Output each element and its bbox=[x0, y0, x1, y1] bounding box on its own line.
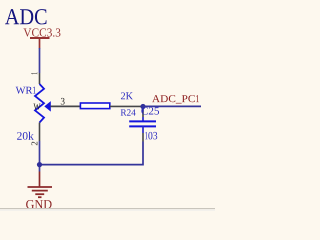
net label ADC_PC1 bbox=[152, 95, 199, 103]
capacitor C25 top pin wire stub bbox=[142, 107, 144, 113]
potentiometer WR1 wiper arrow bbox=[44, 101, 51, 112]
ground bar 4 bbox=[38, 196, 42, 198]
power symbol VCC3.3 stem bbox=[39, 38, 41, 49]
window bottom border line bbox=[0, 208, 215, 209]
window bottom band bbox=[0, 209, 215, 211]
ground bar 2 bbox=[32, 190, 48, 192]
potentiometer WR1 body zigzag bbox=[35, 84, 44, 123]
designator WR1 bbox=[16, 87, 36, 94]
power net label VCC3.3 bbox=[23, 28, 60, 36]
capacitor C25 bottom pin bbox=[142, 133, 144, 142]
ground bar 3 bbox=[35, 193, 44, 195]
ground stem bbox=[39, 172, 41, 187]
pin number 2 bbox=[31, 142, 37, 146]
power symbol VCC3.3 bar bbox=[30, 37, 50, 39]
pin number 3 bbox=[61, 98, 65, 105]
capacitor C25 bottom plate stem bbox=[142, 126, 144, 133]
pin name W bbox=[33, 104, 40, 110]
capacitor C25 top plate stem bbox=[142, 117, 144, 121]
potentiometer WR1 wiper pin 3 bbox=[51, 105, 81, 107]
wire net ADC_PC1 bbox=[143, 105, 201, 107]
value 103 bbox=[145, 132, 157, 140]
ground bar 1 bbox=[28, 186, 53, 188]
title ADC bbox=[5, 9, 46, 24]
value 2K bbox=[121, 92, 133, 99]
value 20k bbox=[17, 132, 34, 140]
resistor R24 body bbox=[80, 103, 109, 109]
pin number 1 bbox=[31, 72, 37, 74]
designator R24 bbox=[121, 109, 136, 115]
junction node ADC_PC1 bbox=[140, 104, 145, 109]
resistor R24 right pin bbox=[110, 105, 143, 107]
capacitor C25 top pin bbox=[142, 112, 144, 117]
wire VCC3.3 to WR1 pin 1 bbox=[39, 48, 41, 73]
capacitor C25 bottom plate bbox=[129, 125, 156, 127]
potentiometer WR1 pin 2 bbox=[39, 123, 41, 142]
designator C25 bbox=[141, 107, 159, 114]
junction node ground bbox=[37, 162, 42, 167]
wire WR1 pin 2 to ground junction bbox=[39, 141, 41, 172]
wire capacitor C25 bottom to corner bbox=[40, 142, 144, 165]
ground net label GND bbox=[26, 200, 52, 209]
potentiometer WR1 pin 1 bbox=[39, 73, 41, 84]
capacitor C25 top plate bbox=[129, 120, 156, 122]
